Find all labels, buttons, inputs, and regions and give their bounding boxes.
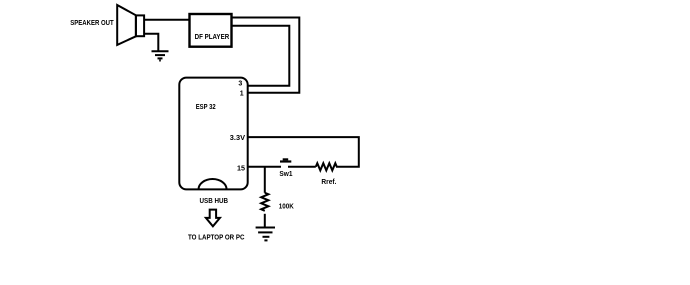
wire 100K to ground bbox=[264, 214, 266, 228]
wire 3.3V to Rref (right loop) bbox=[248, 137, 359, 167]
svg-text:DF PLAYER: DF PLAYER bbox=[195, 34, 230, 41]
wire pin15 junction down to 100K resistor bbox=[264, 167, 266, 193]
ESP32 module U1 bbox=[179, 78, 247, 190]
wire speaker to DF player bbox=[144, 19, 190, 21]
wire switch to Rref bbox=[288, 166, 316, 168]
svg-text:3.3V: 3.3V bbox=[230, 135, 246, 142]
svg-text:15: 15 bbox=[237, 165, 245, 172]
USB notch arc on ESP32 bbox=[199, 179, 227, 189]
svg-text:100K: 100K bbox=[279, 204, 294, 211]
wire DF player to ESP pin 3 (inner loop) bbox=[232, 26, 290, 86]
svg-text:1: 1 bbox=[240, 91, 244, 98]
ground (100K) bbox=[256, 228, 275, 241]
svg-text:USB HUB: USB HUB bbox=[200, 198, 229, 205]
speaker LS1 bbox=[117, 5, 144, 45]
svg-text:TO LAPTOP OR PC: TO LAPTOP OR PC bbox=[188, 235, 245, 242]
svg-text:ESP 32: ESP 32 bbox=[196, 104, 216, 111]
resistor R1 100K bbox=[261, 193, 268, 211]
wire pin 15 to switch Sw1 bbox=[248, 166, 281, 168]
svg-text:Rref.: Rref. bbox=[321, 179, 336, 186]
ground (speaker) bbox=[152, 51, 169, 60]
svg-text:3: 3 bbox=[238, 81, 242, 88]
wire speaker to ground bbox=[144, 34, 158, 52]
DF Player module bbox=[190, 14, 232, 47]
resistor Rref bbox=[316, 163, 337, 170]
svg-text:SPEAKER OUT: SPEAKER OUT bbox=[70, 20, 114, 27]
svg-text:Sw1: Sw1 bbox=[279, 171, 292, 178]
switch Sw1 (push button) bbox=[280, 158, 291, 162]
wire DF player to ESP pin 1 (outer loop) bbox=[232, 18, 300, 93]
arrow USB to laptop bbox=[206, 210, 220, 227]
